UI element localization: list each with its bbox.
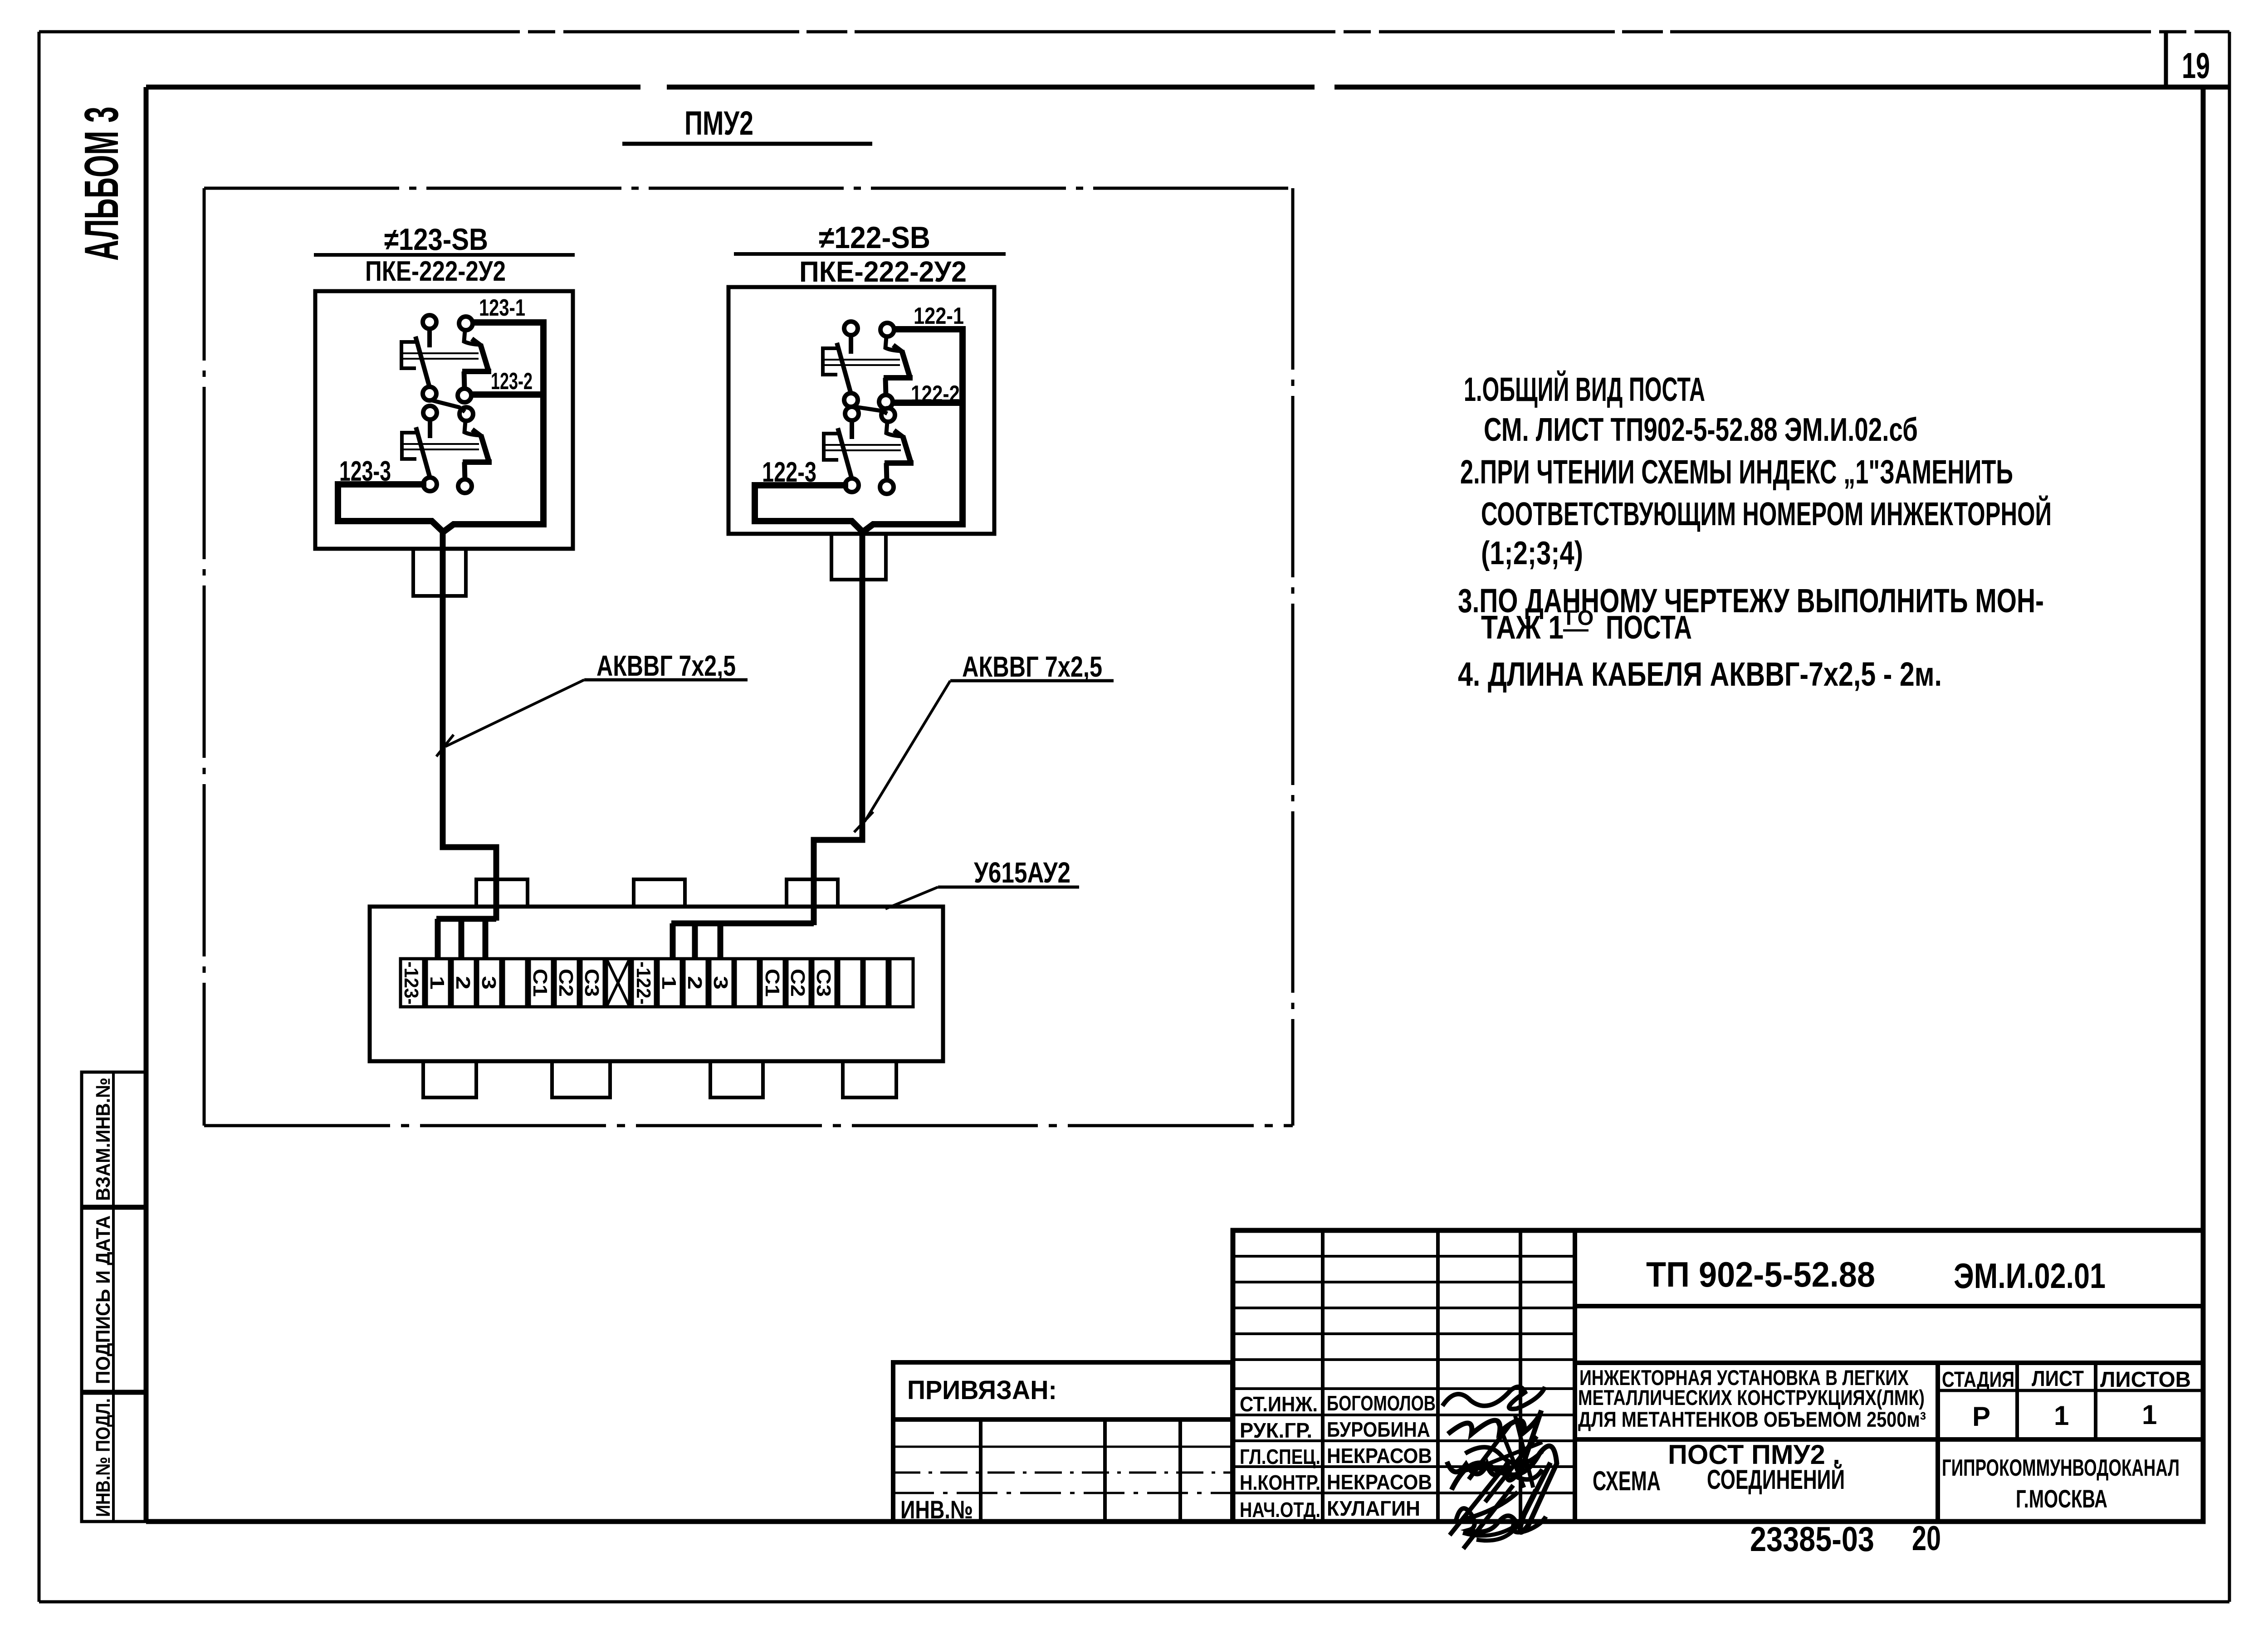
stage/sheet header: [1942, 1367, 2191, 1432]
svg-text:БОГОМОЛОВ: БОГОМОЛОВ: [1327, 1391, 1436, 1415]
svg-text:АКВВГ 7х2,5: АКВВГ 7х2,5: [596, 649, 736, 682]
svg-text:Р: Р: [1972, 1401, 1990, 1432]
svg-text:ПМУ2: ПМУ2: [684, 104, 753, 142]
svg-text:1: 1: [658, 976, 680, 990]
svg-text:КУЛАГИН: КУЛАГИН: [1327, 1497, 1420, 1520]
svg-text:С2: С2: [787, 969, 809, 997]
svg-text:НЕКРАСОВ: НЕКРАСОВ: [1327, 1444, 1432, 1468]
svg-text:1: 1: [2142, 1400, 2157, 1430]
svg-text:СМ. ЛИСТ ТП902-5-52.88 ЭМ.И.02: СМ. ЛИСТ ТП902-5-52.88 ЭМ.И.02.сб: [1484, 412, 1918, 448]
organization: [1942, 1455, 2180, 1513]
svg-text:2: 2: [452, 976, 474, 990]
pushbutton station SB-123 label: [314, 222, 575, 287]
sheet name: [1593, 1439, 1845, 1496]
svg-text:РУК.ГР.: РУК.ГР.: [1240, 1419, 1312, 1442]
terminal block U615AU2 label: [885, 856, 1079, 909]
svg-text:С2: С2: [555, 969, 577, 997]
privyazan block: [893, 1362, 1232, 1524]
title block frame: [1233, 1230, 2203, 1522]
svg-text:НАЧ.ОТД.: НАЧ.ОТД.: [1240, 1498, 1320, 1522]
margin stamp box Podpis i data: [82, 1208, 146, 1391]
svg-text:3: 3: [478, 976, 500, 990]
svg-text:ПКЕ-222-2У2: ПКЕ-222-2У2: [799, 255, 967, 288]
margin stamp box Inv.N podl: [82, 1393, 146, 1522]
svg-text:НЕКРАСОВ: НЕКРАСОВ: [1327, 1470, 1432, 1494]
svg-text:ПОДПИСЬ И ДАТА: ПОДПИСЬ И ДАТА: [92, 1215, 114, 1384]
pushbutton SB-123 body: [315, 291, 573, 596]
svg-text:20: 20: [1912, 1519, 1941, 1558]
svg-text:У615АУ2: У615АУ2: [974, 856, 1070, 889]
svg-text:4. ДЛИНА КАБЕЛЯ АКВВГ-7х2,5 -: 4. ДЛИНА КАБЕЛЯ АКВВГ-7х2,5 - 2м.: [1458, 655, 1942, 693]
terminal strip cells: [400, 959, 913, 1007]
svg-text:ПРИВЯЗАН:: ПРИВЯЗАН:: [907, 1375, 1057, 1405]
title PMU2: [622, 104, 872, 144]
svg-text:ПКЕ-222-2У2: ПКЕ-222-2У2: [365, 256, 506, 287]
svg-text:123-2: 123-2: [491, 368, 533, 395]
svg-text:ВЗАМ.ИНВ.№: ВЗАМ.ИНВ.№: [92, 1078, 114, 1201]
dashed enclosure of post PMU2: [204, 188, 1293, 1126]
SB-123 contact block 2: [402, 400, 492, 493]
margin stamp box Vzam.inv: [82, 1072, 146, 1206]
svg-text:АКВВГ 7х2,5: АКВВГ 7х2,5: [962, 650, 1102, 683]
svg-text:2: 2: [684, 976, 706, 990]
terminal block top tabs: [476, 879, 838, 907]
wire 123-3: [338, 456, 442, 531]
svg-text:С1: С1: [761, 969, 783, 997]
svg-text:ДЛЯ МЕТАНТЕНКОВ ОБЪЕМОМ 2500м³: ДЛЯ МЕТАНТЕНКОВ ОБЪЕМОМ 2500м³: [1578, 1407, 1926, 1431]
archive number: [1750, 1519, 1941, 1559]
wire 123-1: [443, 295, 543, 532]
wire 123-2: [471, 368, 543, 395]
svg-text:ПОСТА: ПОСТА: [1606, 610, 1692, 646]
SB-122 contact block 1: [823, 322, 913, 409]
svg-text:ТП 902-5-52.88: ТП 902-5-52.88: [1646, 1254, 1875, 1294]
title block doc number: [1646, 1254, 2106, 1296]
svg-text:123-1: 123-1: [479, 295, 525, 321]
svg-text:АЛЬБОМ 3: АЛЬБОМ 3: [75, 107, 128, 261]
SB-123 contact block 1: [401, 315, 491, 402]
svg-text:ИНВ.№ ПОДЛ.: ИНВ.№ ПОДЛ.: [92, 1398, 114, 1517]
svg-text:3: 3: [709, 976, 732, 990]
svg-text:1: 1: [2054, 1400, 2069, 1431]
wire drops to terminals 122:1,2,3: [671, 923, 814, 959]
wire 122-2: [893, 381, 963, 407]
svg-text:С3: С3: [812, 969, 835, 997]
sheet number box 19: [2166, 32, 2210, 87]
pushbutton station SB-122 label: [734, 220, 1006, 288]
svg-text:ЛИСТОВ: ЛИСТОВ: [2100, 1368, 2191, 1392]
svg-text:ГИПРОКОММУНВОДОКАНАЛ: ГИПРОКОММУНВОДОКАНАЛ: [1942, 1455, 2180, 1481]
terminal block bottom tabs: [423, 1061, 896, 1097]
svg-text:122-1: 122-1: [914, 303, 964, 329]
svg-text:ЛИСТ: ЛИСТ: [2032, 1367, 2084, 1391]
svg-text:МЕТАЛЛИЧЕСКИХ КОНСТРУКЦИЯХ(ЛМК: МЕТАЛЛИЧЕСКИХ КОНСТРУКЦИЯХ(ЛМК): [1578, 1385, 1925, 1410]
pushbutton SB-122 body: [728, 287, 994, 580]
wire 122-1: [863, 303, 964, 532]
svg-text:≠123-SB: ≠123-SB: [384, 222, 488, 257]
title block changes grid: [1233, 1230, 1575, 1522]
svg-text:Н.КОНТР.: Н.КОНТР.: [1240, 1471, 1320, 1494]
svg-text:19: 19: [2182, 45, 2210, 86]
svg-text:-123-: -123-: [400, 961, 422, 1005]
notes text: [1458, 370, 2052, 693]
svg-text:ТАЖ 1: ТАЖ 1: [1481, 610, 1564, 646]
SB-122 contact block 2: [824, 406, 914, 494]
cable label AKVVG left: [436, 649, 748, 756]
cable label AKVVG right: [854, 650, 1114, 832]
svg-text:1: 1: [426, 976, 448, 990]
svg-text:ГЛ.СПЕЦ.: ГЛ.СПЕЦ.: [1240, 1445, 1320, 1468]
wire drops to terminals 123:1,2,3: [436, 919, 496, 959]
svg-text:(1;2;3;4): (1;2;3;4): [1481, 535, 1583, 571]
svg-text:СТАДИЯ: СТАДИЯ: [1942, 1368, 2014, 1392]
svg-text:С1: С1: [529, 969, 551, 997]
svg-text:СООТВЕТСТВУЮЩИМ НОМЕРОМ ИНЖЕКТ: СООТВЕТСТВУЮЩИМ НОМЕРОМ ИНЖЕКТОРНОЙ: [1481, 495, 2052, 532]
svg-text:Г.МОСКВА: Г.МОСКВА: [2016, 1484, 2107, 1513]
signature rows: [1240, 1391, 1436, 1522]
terminal block U615AU2 body: [370, 907, 943, 1061]
album label: [75, 107, 128, 261]
cable from SB-122 to terminal block: [814, 528, 862, 925]
svg-text:1.ОБЩИЙ ВИД ПОСТА: 1.ОБЩИЙ ВИД ПОСТА: [1464, 370, 1705, 408]
wire 122-3: [755, 457, 862, 531]
svg-text:СТ.ИНЖ.: СТ.ИНЖ.: [1240, 1392, 1318, 1416]
svg-text:ИНВ.№: ИНВ.№: [900, 1495, 973, 1524]
svg-text:ГО: ГО: [1566, 606, 1593, 629]
svg-text:2.ПРИ ЧТЕНИИ СХЕМЫ ИНДЕКС „1"З: 2.ПРИ ЧТЕНИИ СХЕМЫ ИНДЕКС „1"ЗАМЕНИТЬ: [1460, 453, 2013, 491]
svg-text:СХЕМА: СХЕМА: [1593, 1466, 1661, 1496]
svg-text:ЭМ.И.02.01: ЭМ.И.02.01: [1954, 1256, 2106, 1296]
signatures scribble: [1442, 1387, 1557, 1549]
svg-text:БУРОБИНА: БУРОБИНА: [1327, 1418, 1430, 1441]
svg-text:СОЕДИНЕНИЙ: СОЕДИНЕНИЙ: [1707, 1464, 1845, 1495]
svg-text:≠122-SB: ≠122-SB: [819, 220, 930, 255]
svg-text:-122-: -122-: [632, 961, 655, 1005]
svg-text:23385-03: 23385-03: [1750, 1520, 1874, 1559]
title block project name: [1578, 1366, 1926, 1431]
cable from SB-123 to terminal block: [443, 528, 496, 921]
svg-text:С3: С3: [581, 969, 603, 997]
